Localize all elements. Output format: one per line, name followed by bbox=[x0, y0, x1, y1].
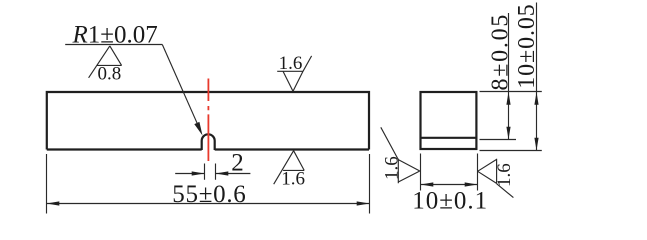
arrowhead left for 10±0.1 bbox=[421, 182, 434, 186]
extension line from notch depth line bbox=[480, 139, 517, 141]
arrowhead pointing right at notch left bbox=[192, 171, 205, 175]
extension line right for 10±0.1 bbox=[477, 154, 479, 191]
arrowhead right of 55 bbox=[357, 201, 370, 205]
arrowhead right for 10±0.1 bbox=[465, 182, 478, 186]
roughness symbol 1.6 left of square bbox=[381, 127, 420, 183]
specimen bar outline (front view) bbox=[47, 92, 369, 150]
arrowhead up for 8 bbox=[506, 92, 510, 105]
bar bottom edge right segment bbox=[215, 148, 369, 150]
notch depth line in side view bbox=[421, 137, 477, 139]
svg-text:1.6: 1.6 bbox=[494, 163, 515, 187]
svg-text:1.6: 1.6 bbox=[279, 53, 303, 74]
arrowhead left of 55 bbox=[47, 201, 60, 205]
roughness symbol 0.8 bbox=[89, 46, 122, 78]
svg-text:1.6: 1.6 bbox=[281, 169, 305, 190]
svg-text:2: 2 bbox=[231, 149, 244, 176]
cross-section square (side view) bbox=[421, 92, 477, 149]
roughness symbol 1.6 on bottom edge bbox=[274, 151, 305, 185]
U-notch R1 bbox=[202, 134, 215, 150]
dimension line 2 (left part) bbox=[175, 173, 204, 175]
roughness symbol 1.6 on top edge bbox=[277, 56, 311, 91]
leader shoulder line bbox=[65, 44, 162, 46]
extension line left for 55 bbox=[46, 154, 48, 214]
arrowhead pointing left at notch right bbox=[216, 171, 229, 175]
svg-text:55±0.6: 55±0.6 bbox=[172, 181, 246, 208]
dimension line 10±0.05 bbox=[536, 3, 538, 151]
bar bottom edge left segment bbox=[47, 148, 202, 150]
svg-text:0.8: 0.8 bbox=[98, 64, 122, 85]
dimension line 10±0.1 bbox=[421, 184, 478, 186]
extension line from square bottom edge bbox=[480, 150, 542, 152]
leader line to notch bbox=[162, 45, 198, 127]
arrowhead up for 10±0.05 bbox=[534, 92, 538, 105]
arrowhead down for 8 bbox=[506, 127, 510, 140]
extension lines for notch width 2 bbox=[205, 164, 216, 180]
dimension line 2 (right part) bbox=[216, 173, 251, 175]
dimension line 55±0.6 bbox=[47, 203, 370, 205]
arrowhead down for 10±0.05 bbox=[534, 138, 538, 151]
dimension line 8±0.05 bbox=[508, 13, 510, 140]
svg-text:10±0.05: 10±0.05 bbox=[514, 3, 540, 88]
svg-text:1.6: 1.6 bbox=[381, 156, 402, 180]
leader arrowhead bbox=[194, 122, 202, 136]
svg-text:10±0.1: 10±0.1 bbox=[412, 187, 488, 214]
svg-text:8±0.05: 8±0.05 bbox=[488, 13, 514, 91]
extension line left for 10±0.1 bbox=[420, 154, 422, 191]
red centerline of notch bbox=[207, 79, 209, 162]
extension line right for 55 bbox=[369, 154, 371, 214]
extension line from square top edge bbox=[480, 91, 542, 93]
roughness symbol 1.6 right of square bbox=[478, 159, 514, 198]
